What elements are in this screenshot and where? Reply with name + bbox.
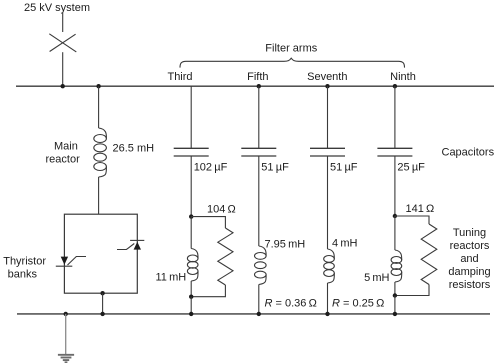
svg-text:51 µF: 51 µF: [261, 162, 289, 174]
node: ninth arm / top bus junction: [393, 84, 397, 88]
inductor L9 5 mH (ninth arm): [391, 250, 402, 282]
wire: C2 to 7.95 mH coil: [258, 156, 260, 246]
svg-text:R = 0.36 Ω: R = 0.36 Ω: [265, 298, 317, 310]
wire: ninth arm to bottom bus: [394, 296, 396, 314]
wire: top bus to fifth-arm capacitor: [258, 86, 260, 148]
svg-text:Main: Main: [54, 141, 78, 153]
wire: top bus to third-arm capacitor: [190, 86, 192, 148]
thyristor Q2 (right, conducting up): [117, 240, 144, 249]
top bus: [16, 85, 494, 87]
svg-text:banks: banks: [8, 269, 38, 281]
node: seventh arm / top bus junction: [325, 84, 329, 88]
node: ninth-arm top parallel junction: [393, 214, 397, 218]
inductor L3 11 mH (third arm): [187, 249, 198, 282]
svg-text:11 mH: 11 mH: [156, 272, 187, 284]
wire: C4 to ninth-arm parallel node: [394, 156, 396, 216]
node: ninth-arm bottom parallel junction: [393, 293, 397, 297]
thyristor Q1 (left, conducting down): [56, 257, 86, 267]
inductor L main reactor 26.5 mH: [94, 128, 107, 177]
wire: 4 mH coil to bottom bus: [327, 283, 329, 314]
svg-text:Ninth: Ninth: [390, 71, 416, 83]
ground symbol: [58, 355, 74, 363]
wire: main reactor to thyristor bank box: [98, 177, 100, 214]
wire: top bus to ninth-arm capacitor: [394, 86, 396, 148]
node: third arm / bottom bus junction: [189, 312, 193, 316]
capacitor C1 third arm: [174, 148, 209, 156]
svg-text:damping: damping: [448, 266, 490, 278]
node: fifth arm / top bus junction: [257, 84, 261, 88]
wire: 11 mH coil to bottom parallel node: [190, 281, 192, 297]
wire: breaker to top bus: [62, 52, 64, 86]
node: seventh arm / bottom bus junction: [325, 312, 329, 316]
capacitor C3 seventh arm: [310, 148, 345, 156]
wire: node to 5 mH coil: [394, 216, 396, 250]
svg-text:25 kV system: 25 kV system: [24, 2, 90, 14]
inductor L7 4 mH (seventh arm): [324, 249, 335, 283]
brace over filter arms: [180, 58, 405, 67]
wire: feeder stub from 25 kV system: [62, 13, 64, 33]
svg-text:Thyristor: Thyristor: [3, 256, 46, 268]
svg-text:Tuning: Tuning: [453, 227, 486, 239]
svg-text:Seventh: Seventh: [307, 71, 347, 83]
wire: C3 to 4 mH coil: [327, 156, 329, 249]
svg-text:and: and: [460, 253, 478, 265]
svg-text:5 mH: 5 mH: [364, 272, 389, 284]
svg-text:141 Ω: 141 Ω: [406, 203, 435, 215]
svg-text:resistors: resistors: [449, 279, 491, 291]
wire: top bus to seventh-arm capacitor: [327, 86, 329, 148]
svg-text:Fifth: Fifth: [247, 71, 268, 83]
wire: third arm to bottom bus: [190, 297, 192, 314]
wire: node to 11 mH coil: [190, 217, 192, 249]
node: third-arm bottom parallel junction: [189, 295, 193, 299]
resistor R3 104 ohm (third arm damping): [191, 217, 233, 297]
wire: 5 mH coil to bottom parallel node: [394, 282, 396, 296]
node: fifth arm / bottom bus junction: [257, 312, 261, 316]
wire: top bus to main reactor: [98, 86, 100, 128]
svg-text:Filter arms: Filter arms: [265, 42, 317, 54]
capacitor C4 ninth arm: [377, 148, 412, 156]
svg-text:26.5 mH: 26.5 mH: [113, 143, 155, 155]
node: thyristor box bottom junction: [100, 291, 104, 295]
svg-text:Capacitors: Capacitors: [442, 147, 494, 159]
svg-text:102 µF: 102 µF: [194, 162, 228, 174]
svg-text:4 mH: 4 mH: [332, 238, 357, 250]
svg-text:Third: Third: [167, 71, 192, 83]
circuit breaker (X symbol): [49, 34, 76, 52]
node: thyristor branch / bottom bus junction: [100, 312, 104, 316]
thyristor banks box: [64, 214, 137, 293]
svg-text:reactor: reactor: [46, 154, 81, 166]
capacitor C2 fifth arm: [241, 148, 276, 156]
inductor L5 7.95 mH (fifth arm): [254, 246, 266, 285]
svg-text:R = 0.25 Ω: R = 0.25 Ω: [332, 298, 384, 310]
svg-text:25 µF: 25 µF: [397, 162, 425, 174]
wire: bottom bus to ground: [65, 314, 67, 354]
svg-text:7.95 mH: 7.95 mH: [265, 239, 306, 251]
node: ninth arm / bottom bus junction: [393, 312, 397, 316]
wire: thyristor box to bottom bus: [102, 293, 104, 314]
resistor R9 141 ohm (ninth arm damping): [395, 216, 437, 296]
svg-text:reactors: reactors: [450, 240, 490, 252]
node: third-arm top parallel junction: [189, 214, 193, 218]
bottom bus: [17, 313, 490, 315]
node: breaker / top bus junction: [61, 84, 65, 88]
svg-text:104 Ω: 104 Ω: [207, 204, 236, 216]
node: ground / bottom bus junction: [63, 312, 67, 316]
wire: 7.95 mH coil to bottom bus: [258, 285, 260, 314]
svg-text:51 µF: 51 µF: [330, 162, 358, 174]
wire: C1 to third-arm parallel node: [190, 156, 192, 217]
node: main reactor / top bus junction: [96, 84, 100, 88]
